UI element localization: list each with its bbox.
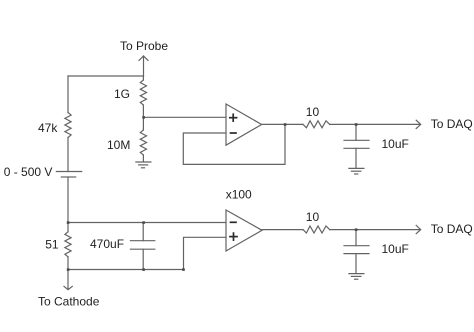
wire node B to op-amp U2 inverting input <box>68 222 226 224</box>
svg-text:10uF: 10uF <box>382 137 409 151</box>
svg-text:To Probe: To Probe <box>120 39 168 53</box>
wire U1 output <box>262 123 303 125</box>
wire <box>67 257 69 270</box>
svg-text:To DAQ: To DAQ <box>431 222 473 236</box>
resistor R3 1G <box>140 80 146 105</box>
svg-text:470uF: 470uF <box>90 237 124 251</box>
wire node C to op-amp U1 non-inverting input <box>144 116 227 118</box>
node divider tap (1G/10M junction) <box>142 116 145 119</box>
svg-text:51: 51 <box>45 238 59 252</box>
battery BT1 0-500V <box>56 172 81 178</box>
wire U2 output <box>262 229 303 231</box>
ground (top filter) <box>349 168 364 174</box>
wire U1 feedback loop <box>183 124 285 164</box>
wire to DAQ (bottom) <box>330 229 420 231</box>
wire probe arrow <box>143 56 145 76</box>
wire to cathode arrow <box>67 270 69 290</box>
node cathode junction <box>67 268 70 271</box>
svg-text:0 - 500 V: 0 - 500 V <box>4 165 53 179</box>
wire <box>67 76 69 113</box>
node bottom filter junction <box>355 228 358 231</box>
wire <box>67 138 69 172</box>
wire <box>67 177 69 223</box>
svg-text:10M: 10M <box>107 138 130 152</box>
svg-text:10: 10 <box>306 210 320 224</box>
resistor R6 10 (top) <box>303 121 330 128</box>
node bottom rail corner <box>182 268 185 271</box>
node 470uF bottom junction <box>142 268 145 271</box>
svg-text:10uF: 10uF <box>382 242 409 256</box>
ground (bottom filter) <box>349 274 364 280</box>
wire <box>67 223 69 232</box>
capacitor C3 10uF (bottom) <box>344 230 369 274</box>
capacitor C1 470uF <box>130 223 154 270</box>
svg-text:10: 10 <box>306 105 320 119</box>
wire <box>142 76 144 80</box>
svg-text:x100: x100 <box>226 188 252 202</box>
node 470uF top junction <box>142 221 145 224</box>
svg-text:1G: 1G <box>114 87 130 101</box>
node U1 output/feedback junction <box>284 123 287 126</box>
op-amp U1 buffer <box>226 104 262 145</box>
wire <box>142 117 144 130</box>
wire to op-amp U2 non-inverting input <box>184 237 227 269</box>
svg-text:To Cathode: To Cathode <box>38 295 100 309</box>
wire <box>142 155 144 162</box>
node top filter junction <box>355 123 358 126</box>
resistor R4 10 (bottom) <box>303 226 330 233</box>
node battery/51 junction <box>67 221 70 224</box>
capacitor C2 10uF (top) <box>344 124 369 168</box>
resistor R2 51 <box>65 232 71 257</box>
wire bottom rail <box>68 269 184 271</box>
ground (10M) <box>136 162 151 168</box>
wire to DAQ (top) <box>330 123 420 125</box>
op-amp U2 x100 <box>226 210 262 251</box>
svg-text:To DAQ: To DAQ <box>431 117 473 131</box>
resistor R1 47k <box>65 113 71 138</box>
resistor R5 10M <box>140 130 146 155</box>
svg-text:47k: 47k <box>38 121 58 135</box>
node A top-left: wire from battery branch to probe branch <box>68 75 144 77</box>
